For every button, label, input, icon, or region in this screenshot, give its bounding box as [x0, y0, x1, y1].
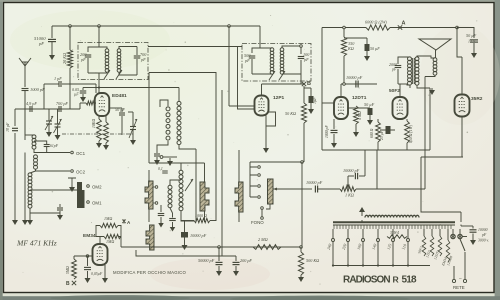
trimmer capacitor padder 2 [54, 118, 62, 133]
node tap bus e [392, 264, 394, 266]
capacitor tank bypass b [169, 219, 176, 221]
ground 50000 pF [216, 269, 222, 276]
svg-text:OC1: OC1 [76, 151, 86, 156]
node A test point [398, 21, 406, 30]
value label 500 pF IF2 [244, 53, 251, 58]
variable capacitor gang section 3 [235, 182, 243, 212]
node ED481 plate junction [98, 86, 100, 88]
wire x237 to gang3 [238, 95, 256, 109]
capacitor 50000 pF AVC stem [218, 247, 220, 261]
value label 1 M b [106, 239, 114, 244]
capacitor 50 pF feedback [119, 113, 125, 115]
capacitor tank bypass a stem [160, 205, 162, 212]
switch label OM1 [92, 201, 102, 206]
value label pF 3000V [478, 233, 489, 243]
resistor heater section EM34 [441, 240, 454, 267]
switch trimmer link [68, 178, 76, 185]
capacitor 700 pF IF1 secondary [134, 56, 141, 58]
capacitor 1 uF electrolytic body [309, 96, 314, 107]
node junction rail-IF1 [98, 25, 101, 28]
terminal RETE b [463, 279, 466, 282]
wire osc plate bottom [179, 145, 196, 149]
wire grid cap 1pF row [62, 84, 96, 93]
wire 10000pF osc down [184, 238, 186, 244]
value label 100 pF IF2 [303, 52, 310, 57]
svg-text:2 MΩ: 2 MΩ [258, 237, 268, 242]
value label 1 pF [54, 76, 62, 81]
wire L3 bottom row [30, 208, 60, 218]
wire tank link [170, 163, 194, 221]
value label 4.9 pF [26, 101, 37, 107]
wire NFB branch [359, 150, 365, 176]
value label 35W4 [390, 231, 399, 235]
value label 50 KΩ [285, 111, 296, 116]
wire osc vertical x222 [221, 90, 223, 256]
wire 5M stem [74, 256, 78, 259]
wire audio coupling [302, 188, 312, 190]
band switch wiper bar [77, 182, 85, 208]
resistor grid stopper ED481 [86, 101, 96, 105]
svg-text:OC2: OC2 [76, 170, 86, 175]
wire osc top feed [99, 88, 179, 102]
tube 12P1 IF amplifier [255, 95, 285, 116]
svg-text:518: 518 [402, 275, 418, 286]
capacitor coil bypass plates [57, 208, 63, 210]
value label 50000 pF [198, 258, 215, 263]
tube label EM34 [83, 233, 96, 239]
value label 50 uF screen [370, 46, 380, 51]
value label pF tone [391, 67, 397, 72]
wire 200 down [235, 266, 237, 269]
capacitor 25 uF body [386, 126, 391, 134]
wire line filter down [472, 234, 474, 239]
resistor 5 MΩ EM34 grid [72, 259, 77, 279]
wire OT prim btm feed [407, 84, 410, 85]
phono jack lower [261, 217, 264, 220]
wire gang1 stem [148, 170, 150, 222]
value label 0.05 uF screen [72, 87, 79, 92]
tube 50F2 output [389, 88, 408, 119]
wire 50pF down [121, 116, 123, 135]
wire L bracket x421 [421, 157, 461, 212]
wire osc vertical x196 [195, 149, 197, 221]
wire antenna to L1 [25, 91, 34, 135]
node junction rail-20k [69, 25, 72, 28]
value label uF screen [74, 92, 79, 97]
resistor 2 KΩ cathode [104, 122, 109, 143]
wire left AVC vertical [14, 109, 16, 218]
resistor 50 KΩ screen [301, 103, 306, 123]
tube 35R2 rectifier [455, 95, 470, 117]
switch label OC2 [76, 170, 86, 175]
label FONO [251, 220, 264, 225]
svg-text:1 pF: 1 pF [54, 76, 62, 81]
value label 1 KΩ [345, 193, 354, 198]
core arrow IF2 primary [269, 71, 275, 80]
wire heater bus y150 [322, 149, 430, 151]
value label 850 rot [409, 124, 413, 143]
wire voice coil circuit [417, 56, 435, 88]
wire IF1-out down x237 [237, 47, 239, 96]
svg-text:1000 pF: 1000 pF [325, 125, 329, 138]
capacitor 10000 pF NFB [355, 173, 357, 180]
ground trimmer osc [130, 138, 136, 145]
ground below 51000 pF [49, 53, 55, 60]
mains tap 160 V [356, 229, 365, 266]
terminal oscillator slug circle [160, 156, 177, 159]
label tilde [459, 277, 462, 282]
svg-text:10000 pF: 10000 pF [306, 180, 323, 185]
value label 0.05uF EM34 [91, 272, 103, 277]
wire field to A [390, 27, 457, 29]
svg-text:pF: pF [244, 58, 250, 63]
wire bus y256 [136, 250, 236, 256]
inductor antenna coil L1 [32, 135, 36, 149]
resistor 350 KΩ screen feed [341, 37, 346, 56]
inductor IF2 primary winding [270, 48, 274, 74]
capacitor 10000 pF osc bypass stem [184, 221, 186, 232]
resistor 10 KΩ osc grid leak [97, 119, 102, 141]
switch contact OC2 circle [71, 170, 74, 173]
wire IF2 secondary top [282, 46, 301, 54]
capacitor 10000 pF line filter stem [461, 225, 473, 229]
svg-text:pF: pF [140, 57, 146, 62]
wire EM34 res loop [96, 226, 121, 248]
capacitor 10 pF series [12, 128, 18, 130]
svg-text:MF 471 KHz: MF 471 KHz [16, 239, 57, 248]
inductor oscillator grid winding [166, 107, 170, 140]
wire under IF1 y72 [149, 73, 216, 222]
node junction speaker feed [456, 26, 459, 29]
svg-text:50 KΩ: 50 KΩ [285, 111, 296, 116]
wire IF2 sec bottom [282, 60, 301, 84]
wire right side down x425 [424, 88, 426, 189]
ground 200 pF [233, 269, 239, 276]
capacitor tank bypass a [158, 214, 165, 216]
title RADIOSON [343, 275, 390, 286]
ground 50uF cathode [367, 118, 373, 125]
transformer core lines [412, 58, 414, 84]
inductor output transformer secondary [415, 57, 419, 85]
svg-text:4 MΩ: 4 MΩ [358, 111, 362, 120]
ballast bar body [333, 222, 455, 225]
core arrow IF1 secondary [116, 70, 122, 79]
capacitor 51000 pF plates [48, 39, 56, 41]
wire 51000pF to ground [51, 42, 53, 53]
svg-text:6000 Ω (2W): 6000 Ω (2W) [365, 20, 387, 25]
value label 10000 pF 3000V [478, 228, 488, 232]
wire padder taps [49, 109, 58, 118]
wire grid tap [80, 103, 86, 109]
svg-text:B: B [307, 81, 311, 87]
value label 700 pF IF1 [140, 52, 147, 57]
capacitor 51000 pF antenna bypass [51, 26, 53, 38]
svg-text:B: B [66, 281, 70, 287]
wire IF2 primary top [252, 48, 272, 53]
wire L1 par cap [34, 141, 47, 153]
wire volume top [250, 161, 302, 163]
wire AVC bus y247 [121, 246, 301, 248]
wire antenna cap to coil [24, 91, 26, 140]
resistor heater section 12DT1 [433, 236, 442, 260]
wire 12P1 feedback loop [266, 112, 276, 146]
wire volume to grid x302 [301, 162, 303, 189]
ground EM34 cap [85, 276, 91, 283]
wire rect plate [461, 57, 463, 95]
mains tap 240 V [326, 229, 335, 266]
svg-text:50 µF: 50 µF [364, 102, 375, 107]
wire 50uF filter btm [473, 43, 475, 50]
wire cathode res [105, 116, 107, 122]
wire rect cathode [461, 117, 463, 158]
svg-text:10000: 10000 [478, 228, 488, 232]
switch contact OM1 circle [87, 201, 90, 204]
switch contact OC1 circle [71, 151, 74, 154]
variable capacitor gang section 1 [145, 181, 153, 209]
value label 12V [468, 39, 476, 44]
wire IF1 out to IF2 [148, 46, 242, 48]
node star A EM34 [122, 219, 131, 225]
mains plug symbol a [451, 234, 455, 238]
node tap bus f [407, 264, 409, 266]
capacitor 200 pF bus [233, 262, 240, 264]
wire node B row [262, 83, 305, 85]
wire osc grid bottom [157, 141, 168, 150]
mains tap 220 V [341, 229, 350, 266]
ground switch trimmer [69, 185, 75, 192]
svg-text:pF: pF [38, 41, 44, 46]
antenna symbol [19, 58, 31, 87]
value label 2000 pF [389, 62, 397, 67]
svg-text:3000 v.: 3000 v. [478, 239, 489, 243]
capacitor coil bypass [59, 204, 61, 207]
svg-text:12P1: 12P1 [273, 95, 285, 101]
svg-text:61pF: 61pF [50, 144, 59, 148]
wire rail to 20k resistor [69, 26, 71, 50]
wire 0.05 down [87, 271, 89, 276]
value label 10000 pF det [346, 75, 363, 80]
wire NFB down arrow [346, 176, 354, 189]
wire diode load [355, 124, 357, 130]
svg-text:35W4: 35W4 [390, 231, 399, 235]
ground tank bypass b [170, 225, 176, 232]
ballast wirewound zigzag [365, 215, 419, 217]
ground ballast arrow up [359, 207, 365, 216]
value label 10000 pF NFB [343, 168, 360, 173]
value label 0.1 osc [158, 167, 163, 172]
capacitor 50 uF cathode body [368, 108, 373, 118]
value label 700 pF osc [56, 101, 68, 106]
value label 6000 Ω (2W) [365, 20, 387, 25]
value label 61 pF [50, 144, 59, 148]
svg-text:MODIFICA PER OCCHIO MAGICO: MODIFICA PER OCCHIO MAGICO [113, 270, 186, 275]
capacitor 2000 pF tone plates [395, 66, 402, 68]
wire to 50uF main filter [457, 28, 474, 39]
inductor IF2 secondary winding [280, 48, 284, 74]
resistor heater section 12D1 [425, 236, 434, 258]
trimmer capacitor padder 1 [45, 115, 53, 130]
svg-text:ED481: ED481 [112, 93, 127, 99]
switch label OM2 [92, 185, 102, 190]
switch label OC1 [76, 151, 86, 156]
label RETE [453, 285, 465, 290]
wire IF1 secondary bottom [119, 72, 137, 75]
wire gang1 feed x149 [148, 73, 150, 164]
inductor oscillator tickler winding [179, 170, 183, 210]
wire antenna return [24, 153, 26, 219]
value label 500 KΩ [306, 258, 319, 263]
wire L3 tap to switch [30, 189, 77, 191]
gang dash-dot link [62, 133, 133, 135]
value label 350 KΩ [348, 41, 355, 46]
svg-text:RETE: RETE [453, 285, 465, 290]
switch contact gang1 b [153, 202, 158, 205]
switch contact vol 3 [258, 185, 261, 188]
svg-text:FONO: FONO [251, 220, 264, 225]
wire EM34 cathode [104, 265, 106, 276]
value label 10 pF rot [5, 122, 10, 132]
capacitor 200 pF IF1 primary [85, 55, 92, 57]
wire L2-L3 link [30, 171, 36, 173]
ground osc grid leak [96, 141, 102, 148]
resistor 1 KΩ grid stopper [340, 187, 356, 192]
trimmer capacitor osc [129, 118, 137, 138]
ballast comb teeth [334, 225, 451, 230]
wire 20k down [69, 68, 71, 109]
resistor 850 Ω 1W [405, 121, 410, 143]
IF transformer T1 dashed box [78, 43, 148, 80]
wire EM34 grid row [74, 255, 93, 257]
node tap bus c [362, 264, 364, 266]
wire volume contacts bus [250, 162, 257, 197]
svg-text:pF: pF [303, 57, 309, 62]
wire right side down x430 [429, 88, 431, 150]
resistor heater section 35W4 [387, 235, 407, 239]
wire IF1 secondary top [119, 47, 137, 50]
svg-text:50000 pF: 50000 pF [198, 258, 215, 263]
mains tap 140 V [371, 229, 380, 266]
capacitor 0.05 uF screen plates [80, 91, 87, 93]
wire gang3 stem [238, 150, 240, 222]
svg-text:10000 pF: 10000 pF [190, 233, 207, 238]
ground left AVC line [12, 218, 18, 225]
value label 10000 pF osc [190, 233, 207, 238]
switch contact vol 2 [258, 174, 261, 177]
svg-text:~: ~ [459, 277, 462, 282]
svg-text:35R2: 35R2 [471, 96, 483, 102]
capacitor 4.9 pF [30, 106, 32, 112]
ground tank bypass a [158, 221, 164, 228]
value label 50 uF 12V [466, 33, 477, 38]
svg-text:R: R [393, 275, 400, 285]
phono jack upper [261, 207, 264, 210]
svg-text:1MΩ: 1MΩ [106, 239, 114, 244]
value label 1000 pF [30, 87, 45, 92]
svg-text:850 Ω (1W): 850 Ω (1W) [409, 124, 413, 143]
core arrow IF2 secondary [279, 71, 285, 80]
inductor IF1 secondary winding [117, 49, 121, 72]
wire plug stems [453, 229, 460, 234]
resistor 2 MΩ AVC [253, 245, 281, 250]
svg-text:1000 Ω: 1000 Ω [195, 213, 207, 218]
switch mains [460, 239, 465, 251]
svg-text:1MΩ: 1MΩ [104, 216, 112, 221]
wire 1uF stem [304, 88, 311, 96]
svg-text:500 KΩ: 500 KΩ [306, 258, 319, 263]
wire x302 volume to AVC [301, 189, 303, 247]
ground 1 uF [308, 107, 314, 114]
capacitor 1 pF grid [59, 81, 61, 87]
wire heater sections top [424, 229, 448, 240]
svg-text:RADIOSON: RADIOSON [343, 275, 390, 286]
IF transformer T2 dashed box [242, 44, 311, 82]
resistor 1 MΩ EM34 b [104, 234, 121, 238]
svg-text:OM1: OM1 [92, 201, 102, 206]
wire grid feed 12P1 [229, 105, 255, 107]
node EM34 grid [86, 255, 89, 258]
wire plugs to filter [462, 236, 467, 238]
wire rail junction down x229 [228, 26, 230, 106]
value label 600 rot [370, 128, 374, 138]
value label 50 pF [115, 107, 125, 112]
resistor 600 Ω cathode 50F2 [376, 122, 381, 142]
capacitor 0.05uF screen [83, 88, 99, 91]
capacitor 50000 pF AVC [216, 262, 223, 264]
value label 1 uF rot [312, 97, 317, 104]
capacitor osc bypass plates a [154, 154, 160, 156]
value label 200 pF IF1 [80, 52, 87, 57]
capacitor 50 pF feedback stem [121, 108, 123, 112]
node volume-h9 [301, 161, 304, 164]
variable capacitor gang section 1b [146, 225, 154, 250]
node tap bus d [377, 264, 379, 266]
ground 500 KΩ [298, 275, 304, 282]
mains tap 125 V [386, 229, 395, 266]
wire grid stopper to tube [95, 102, 98, 104]
speaker cone [419, 39, 451, 58]
wire 600-850 bottom bus [378, 149, 407, 151]
wire trimmer osc top [128, 112, 133, 118]
wire phono [261, 210, 263, 217]
resistor 1 MΩ EM34 a [100, 223, 118, 227]
svg-text:12 V.: 12 V. [468, 39, 476, 44]
mains plug symbol b [458, 234, 462, 238]
wire into IF1 from rail [98, 26, 100, 47]
wire RETE leads [454, 252, 465, 279]
switch contact vol 4 [258, 196, 261, 199]
value label 4 M rot [358, 111, 362, 120]
node tap bus a [332, 264, 334, 266]
resistor heater section 50F2 [417, 236, 426, 256]
capacitor 500 pF IF2 primary [249, 56, 256, 58]
ground coil bypass [57, 211, 63, 220]
title R 518 [393, 275, 418, 286]
node B test point [302, 81, 311, 87]
value label 5 M rot [66, 266, 70, 274]
wire L2 bottom OC2 row [36, 169, 71, 171]
capacitor 50 uF filter plates [470, 40, 478, 42]
wire 600 top [377, 119, 379, 122]
wire 10000pF det row [341, 83, 377, 85]
node IF2 out [300, 45, 303, 48]
value label pF IF2s [303, 57, 309, 62]
ground 12P1 cathode [263, 146, 269, 153]
capacitor 0.1 osc pad [162, 171, 168, 173]
wire ED481 plate to IF1 [98, 73, 100, 93]
svg-text:50 µF: 50 µF [370, 46, 380, 51]
note MODIFICA PER OCCHIO MAGICO [113, 270, 186, 275]
inductor voice coil [433, 58, 437, 75]
